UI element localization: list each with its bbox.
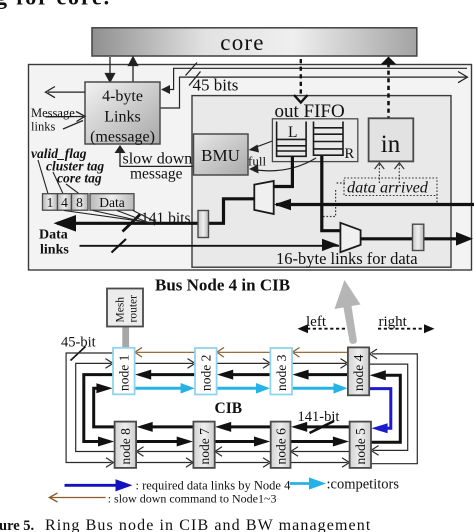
slash on data links line 2 [112, 239, 127, 253]
ring wrap left: thick node8 out to node1 in [94, 388, 115, 427]
BMU box [194, 134, 249, 175]
svg-text:Links: Links [104, 109, 140, 126]
wire: fifo full to BMU (lower curved arrow) [252, 158, 316, 171]
svg-text:45 bits: 45 bits [193, 76, 239, 95]
wire: slow down message path (BMU to 4-byte box) [120, 147, 194, 166]
node 3 [270, 348, 292, 395]
R FIFO [314, 122, 344, 156]
brown slow-down wires [135, 348, 348, 358]
svg-text:Ring Bus node in CIB and BW ma: Ring Bus node in CIB and BW management [45, 517, 371, 532]
wire: message link in (under Message text) [46, 116, 84, 118]
FIFO container box [272, 119, 357, 162]
tag cells 1 4 8 Data [43, 194, 135, 211]
4-byte Links box [85, 82, 160, 144]
svg-text:: slow down command to Node1~3: : slow down command to Node1~3 [108, 492, 277, 506]
svg-text:ure 5.: ure 5. [0, 518, 34, 532]
small diagonal arrow to box [63, 121, 83, 130]
svg-text:BMU: BMU [201, 146, 240, 165]
label data arrived (dashed box) [344, 178, 437, 196]
dashed wire: in box up to core [387, 63, 390, 118]
svg-text:full: full [248, 154, 266, 169]
svg-text:45-bit: 45-bit [61, 335, 96, 351]
svg-text:8: 8 [76, 195, 83, 210]
svg-text:Bus Node 4 in CIB: Bus Node 4 in CIB [155, 276, 290, 295]
svg-text:left: left [306, 314, 327, 330]
slash on thick wire [310, 421, 335, 433]
mesh router stem [122, 327, 129, 349]
slash on upper 45-bit line [186, 63, 198, 76]
arrowhead into 4-byte box [161, 85, 170, 94]
data register (left) [198, 211, 209, 238]
svg-text:node 2: node 2 [199, 355, 214, 391]
node 8 [115, 422, 137, 468]
wire: fifo full to BMU (upper arrow) [251, 141, 272, 149]
svg-text:node 1: node 1 [117, 355, 132, 391]
mesh router box [107, 289, 143, 327]
svg-text:g for core.: g for core. [0, 0, 111, 10]
big gray arrow up [335, 280, 361, 344]
svg-text:node 6: node 6 [273, 428, 288, 465]
core box [92, 28, 417, 56]
svg-text:Mesh: Mesh [115, 297, 127, 323]
leader lines from cells to 141-bit line [64, 211, 156, 226]
legend blue arrow [65, 484, 118, 487]
node 4 [348, 347, 369, 395]
thick wire: data line out left with arrow [57, 222, 225, 225]
ring wrap right: thick node5 out to node4 in [371, 375, 400, 442]
svg-text:Data: Data [99, 195, 124, 210]
svg-text:router: router [128, 295, 140, 323]
leader lines from labels to tag cells [38, 160, 79, 194]
wire: R FIFO down to mux2 [322, 156, 340, 231]
top row wires between nodes [135, 348, 348, 394]
svg-text:core: core [220, 30, 264, 55]
svg-text:node 4: node 4 [351, 354, 366, 391]
mux1 [254, 181, 273, 214]
dashed wire: core down to out FIFO [300, 59, 302, 95]
svg-text:node 3: node 3 [274, 354, 289, 391]
svg-text:(message): (message) [90, 129, 155, 146]
cyan competitor wires right [135, 383, 348, 394]
thin wires right [136, 458, 349, 468]
svg-text:: required data links by Node: : required data links by Node 4 [136, 479, 292, 493]
45-bit link line lower (out of 4-byte box, right arrow) [160, 77, 466, 108]
wire: mux2 output 16-byte link out [361, 237, 460, 240]
node 2 [195, 348, 217, 395]
slash on ring wire [71, 347, 86, 361]
legend brown arrow [51, 497, 106, 499]
thick wires right [136, 437, 349, 447]
svg-text:L: L [288, 124, 297, 141]
node 5 [350, 422, 371, 468]
wire: 4-byte links to core (up arrow) [132, 64, 134, 82]
svg-text:node 7: node 7 [197, 428, 212, 465]
L FIFO [277, 122, 307, 157]
ring wrap right: thin node4 out to node5 in [369, 364, 408, 450]
svg-text:Data: Data [39, 228, 68, 243]
svg-text:node 5: node 5 [353, 428, 368, 465]
svg-text:16-byte links for data: 16-byte links for data [276, 249, 418, 268]
thin message wires right [135, 359, 348, 369]
node 7 [193, 422, 214, 468]
45-bit link line upper (into 4-byte box) [160, 68, 468, 108]
dotted wires: data arrived to in box [321, 164, 437, 217]
slash on lower 45-bit line [189, 72, 201, 86]
ring wrap left: thick node1 out to node8 in [84, 375, 113, 442]
thin wires left [136, 447, 349, 457]
outer box of Bus Node diagram [29, 65, 472, 271]
node 6 [271, 422, 291, 468]
ring wrap right: thin node5 out to node4 in [369, 349, 417, 464]
svg-text::competitors: :competitors [327, 477, 400, 493]
ring wrap left: thin node1 out to node8 in [66, 353, 115, 467]
data register (right) [413, 224, 424, 250]
svg-text:4-byte: 4-byte [102, 88, 143, 105]
svg-text:CIB: CIB [215, 400, 243, 417]
svg-text:data arrived: data arrived [347, 178, 429, 197]
node 1 [113, 348, 135, 395]
thick wires left [137, 422, 350, 432]
bottom row wires between nodes [136, 422, 350, 467]
slash on 141 bits line [123, 215, 141, 232]
wire: L FIFO down to mux1 [274, 156, 292, 187]
svg-text:links: links [40, 243, 69, 258]
svg-text:in: in [381, 131, 401, 158]
inner box (node internals) [192, 96, 451, 268]
mux2 [340, 223, 360, 252]
in box [369, 118, 414, 161]
svg-text:message: message [130, 166, 183, 183]
svg-text:links: links [31, 120, 55, 134]
legend cyan arrow [290, 482, 311, 485]
svg-text:core tag: core tag [57, 171, 102, 186]
svg-text:1: 1 [47, 195, 54, 210]
wire: core to 4-byte links (down arrow) [106, 57, 138, 82]
wire: mux1 output to data reg [224, 199, 255, 224]
wire: data links line 2 (to mux2) [80, 245, 340, 247]
svg-text:right: right [379, 314, 408, 330]
wire: message link out to left [46, 87, 86, 130]
svg-text:R: R [345, 146, 355, 162]
thick data wires left [135, 370, 348, 380]
ring wrap right: blue wire node4 out to node5 in [369, 389, 391, 429]
svg-text:node 8: node 8 [118, 428, 133, 465]
thick wire: incoming data line (right to mux1) [276, 203, 474, 206]
ring wrap left: thin node8 out to node1 in [76, 363, 115, 451]
svg-text:4: 4 [61, 195, 68, 210]
svg-text:Message: Message [31, 106, 75, 120]
